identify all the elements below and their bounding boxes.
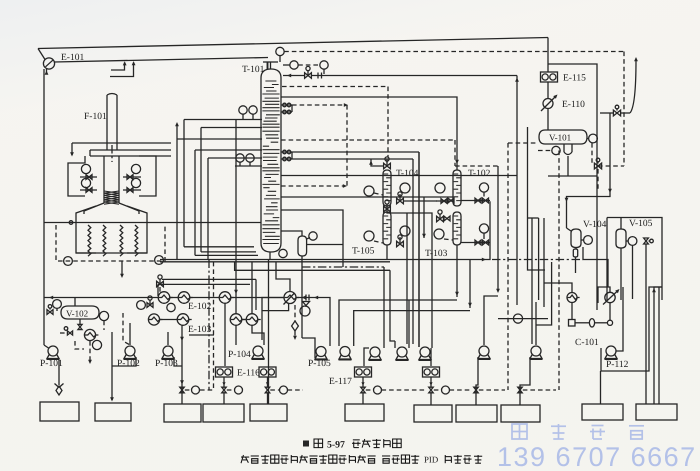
- wire pump484 suction from x=498 corner: [484, 296, 498, 345]
- wire dashed x=455 to x=498: [455, 165, 498, 167]
- wire between third and big exchanger: [231, 297, 284, 299]
- control valve on reflux line: [305, 73, 312, 78]
- wire feed arrow 2 into E-101: [110, 63, 134, 77]
- pump x=375: [370, 347, 380, 357]
- svg-text:E-103: E-103: [188, 325, 211, 335]
- wire P-105 discharge elbow: [302, 338, 315, 358]
- pump P-112: [606, 346, 616, 356]
- svg-text:5-97: 5-97: [327, 440, 345, 451]
- instrument dashed link: [298, 64, 320, 66]
- valve manifold tank8: [474, 387, 478, 393]
- svg-text:E-101: E-101: [61, 53, 84, 63]
- wire long header y=223 through furnace: [44, 222, 261, 224]
- wire into T-102 top from y=97 nozzle: [281, 97, 457, 170]
- tick symbol on reflux line: [317, 73, 319, 79]
- note prefix glyphs: [241, 456, 249, 458]
- instrument right of V-105: [628, 237, 637, 246]
- wire V-105 instrument drop: [632, 245, 634, 299]
- heat exchanger E-101 long body top line: [38, 38, 548, 49]
- burner circle B3: [131, 164, 140, 173]
- wire x=654 arrow up inside box: [654, 287, 662, 404]
- instrument right of V-101: [589, 134, 598, 143]
- svg-text:E-102: E-102: [188, 302, 211, 312]
- air cooler E-117: [355, 367, 372, 377]
- svg-text:E-110: E-110: [562, 100, 585, 110]
- wire dashed below valve: [597, 169, 599, 190]
- svg-text:E-117: E-117: [329, 377, 352, 387]
- wire long line y=297.5 with left arrow: [44, 297, 158, 299]
- wire y=270.3 header with corner: [235, 262, 390, 271]
- wire right vertical x=646 from V-105 valve: [645, 244, 647, 404]
- note tail glyphs: [444, 455, 446, 463]
- exchanger E-102a: [158, 292, 170, 304]
- exchanger E-102b: [178, 292, 190, 304]
- svg-text:T-101: T-101: [242, 65, 265, 75]
- wire feed arrow 1 into E-101: [111, 63, 125, 71]
- wire E-103 outlet down to tank3: [181, 325, 183, 404]
- svg-text:P-105: P-105: [308, 359, 331, 369]
- wire exchanger row y=297.5: [170, 297, 178, 299]
- wire dash-dot vertical x=209: [208, 260, 210, 391]
- wire long header y=261.8: [160, 261, 390, 263]
- vessel V-105: [616, 229, 626, 248]
- fuel instrument left: [64, 257, 73, 266]
- pump x=536: [531, 346, 541, 356]
- wire trunk vertical x=184: [183, 120, 185, 247]
- fuel instrument right: [155, 256, 164, 265]
- wire V-101 outlet down: [567, 156, 569, 176]
- wire trunk riser arrow x=177: [176, 124, 178, 139]
- heat exchanger E-101 body bottom line to T-101 neck: [54, 58, 268, 63]
- wire trunk horizontal y=119.5: [184, 119, 262, 121]
- wire T-104 letdown to T-102 y=201: [403, 200, 437, 202]
- wire dashed manifold chain 2: [382, 389, 427, 391]
- wire ladder horizontal y=251.9: [201, 251, 256, 253]
- wire elbow into V-104 top: [567, 228, 572, 231]
- svg-text:V-102: V-102: [66, 309, 88, 319]
- wire stub into reboiler pot: [281, 231, 302, 236]
- wire exchanger bottom link y=310.6 short: [262, 303, 289, 310]
- wire horizontal pair y=279.4: [162, 278, 256, 280]
- wire dashed T-101 y=105 with arrow: [292, 104, 345, 106]
- svg-text:T-103: T-103: [425, 249, 448, 259]
- wire pump425 discharge to cooler 4: [430, 348, 432, 366]
- wire instrument line y=319: [498, 318, 548, 320]
- wire vertical x=413: [412, 159, 414, 344]
- pump x=402: [397, 347, 407, 357]
- drum V-101: [539, 130, 587, 144]
- wire trunk horizontal y=139: [177, 138, 262, 140]
- furnace firebox flare: [84, 203, 104, 214]
- wire solid y=175.5 right: [281, 175, 517, 177]
- svg-text:PID: PID: [424, 455, 438, 465]
- instrument below exchanger: [92, 340, 101, 349]
- tank box 4: [203, 404, 244, 422]
- instrument pair left of T-101 upper: [239, 106, 247, 114]
- heat exchanger E-101 left end slant: [38, 49, 45, 60]
- svg-text:T-105: T-105: [352, 247, 375, 257]
- column T-101 shell: [261, 69, 281, 252]
- wire long header y=259.5: [160, 246, 490, 260]
- wire big exchanger top connection: [276, 262, 290, 292]
- pump P-101: [48, 346, 58, 356]
- wire P-103 discharge elbow: [174, 357, 182, 366]
- wire vertical x=252 feed: [251, 262, 253, 314]
- instrument above V-102: [53, 300, 62, 309]
- C-101 shaft and motor: [569, 320, 576, 327]
- wire P-101 suction: [44, 345, 49, 348]
- caption figure square bullet: [303, 441, 309, 447]
- valve manifold tank9: [518, 387, 522, 393]
- air cooler unit 4: [423, 367, 440, 377]
- drum V-102: [61, 306, 99, 319]
- instrument left of boot: [552, 146, 560, 154]
- wire vertical x=407: [406, 213, 408, 344]
- wire arrow into T-104 top: [371, 159, 384, 167]
- compressor C-101 stage 2 with arrow: [605, 292, 615, 302]
- wire drop to V-102: [74, 298, 76, 307]
- wire vertical x=256 drop: [255, 279, 257, 310]
- valve on tank3 feed: [180, 387, 184, 393]
- wire T-105 bottom outlet: [386, 245, 388, 260]
- wire header y=300 to pump suction x=339: [339, 300, 457, 346]
- T-101 side nozzle cluster lower: [281, 151, 292, 153]
- instrument dashed signal line across top: [284, 51, 624, 53]
- svg-text:E-116: E-116: [237, 369, 260, 379]
- instrument left of T-105 dashed: [364, 231, 374, 241]
- wire dashed vertical x=624: [623, 52, 625, 167]
- air cooler E-115: [541, 72, 558, 82]
- burner circle B1: [81, 164, 90, 173]
- burner circle B2: [81, 178, 90, 187]
- wire vertical x=419: [418, 152, 420, 347]
- wire stub under E-103 label: [189, 334, 214, 336]
- wire vertical x=424 arrow: [423, 197, 425, 238]
- instrument circle 3: [320, 61, 328, 69]
- furnace F-101 top header: [72, 142, 171, 144]
- wire x=551.6 vertical with elbow: [536, 262, 552, 325]
- furnace F-101 stack: [106, 95, 108, 150]
- vent triangle above instrument: [303, 302, 310, 306]
- column T-101 internal packing dashes: [262, 81, 279, 244]
- wire ladder horizontal y=246.8: [184, 246, 254, 248]
- pump x=425: [420, 347, 430, 357]
- instrument right of big exchanger: [300, 306, 310, 316]
- svg-text:P-104: P-104: [228, 350, 251, 360]
- wire dashed vertical x=559: [558, 151, 560, 391]
- wire dashed vertical x=347: [346, 105, 348, 186]
- valve top right gas line: [613, 110, 620, 116]
- pump P-105: [316, 347, 326, 357]
- svg-text:V-104: V-104: [583, 220, 607, 230]
- instrument left of T-103 dashed: [434, 229, 444, 239]
- manifold under E-117: [361, 387, 365, 393]
- furnace stack centerline: [111, 145, 113, 162]
- exchanger below V-102: [84, 329, 95, 340]
- wire vertical x=498 arrow down: [497, 166, 499, 291]
- wire trunk vertical x=208: [207, 158, 209, 260]
- wire pump484 discharge to tank8: [476, 357, 478, 405]
- furnace upper body walls: [68, 156, 85, 196]
- inline instrument circle x=518: [513, 314, 522, 323]
- wire dash-dot header y=267: [302, 266, 384, 268]
- control device E-110 circle with diagonal arrow: [543, 99, 553, 109]
- wire pump536 suction: [535, 302, 537, 345]
- wire vertical x=610 with corner to V-104: [567, 113, 611, 228]
- exchanger E-10x big: [284, 292, 296, 304]
- wire branch y=64 to x=597: [548, 64, 597, 113]
- wire dashed T-101 y=140 to x=455: [281, 139, 455, 141]
- svg-text:P-112: P-112: [606, 360, 629, 370]
- wire dashed manifold chain 1: [288, 389, 304, 391]
- tank box 5: [250, 404, 287, 421]
- wire E-101 outlet down to E-115: [547, 38, 549, 73]
- furnace damper neck hatched: [103, 156, 105, 203]
- column T-105 shell: [383, 212, 391, 245]
- column T-103 shell: [453, 212, 461, 245]
- wire horizontal y=176 right: [548, 175, 597, 177]
- wire trunk horizontal y=158: [208, 157, 262, 159]
- manifold under cooler 4: [429, 387, 433, 393]
- wire V-105 bottom outlet: [620, 248, 622, 300]
- V-105 enclosure: [607, 218, 662, 301]
- tank box 8: [456, 405, 497, 422]
- control valve pair above T-103: [437, 216, 444, 221]
- svg-text:C-101: C-101: [575, 338, 599, 348]
- note body glyphs 1: [261, 455, 269, 457]
- pump P-104: [253, 346, 263, 356]
- instrument right of T-105: [400, 226, 410, 236]
- wire dashed header continuation y=259.5: [492, 259, 583, 261]
- wire trunk horizontal y=127.5: [201, 127, 262, 129]
- wire trunk vertical x=201: [200, 128, 202, 252]
- wire furnace bottom arrow: [121, 261, 123, 276]
- wire dashed vertical x=592 short: [591, 143, 593, 163]
- wire vertical x=527.5 corner to 540: [528, 127, 546, 270]
- wire T-101 bottom outlet to header: [269, 252, 271, 260]
- instrument circle on T-101 overhead: [276, 47, 284, 55]
- wire dashed T-101 y=86.5 with corner down: [282, 86, 388, 88]
- wire P-103 suction: [167, 332, 169, 345]
- instrument right of T-104: [400, 183, 410, 193]
- wire solid y=159 right: [292, 158, 413, 160]
- valve pair left of T-102: [441, 199, 447, 204]
- caption title glyphs: [353, 439, 360, 441]
- exchanger near P-104 b: [246, 314, 258, 326]
- wire C-101 stage1 inlet: [544, 283, 572, 293]
- instrument right of T-102 with valve pair: [479, 183, 488, 192]
- vessel reboiler pot: [298, 236, 307, 256]
- wire vertical x=236 long with arrow: [235, 120, 237, 314]
- wire twin vertical x=390: [390, 270, 395, 341]
- wire P-101 discharge to tank1: [58, 360, 60, 385]
- svg-text:T-102: T-102: [468, 169, 491, 179]
- burner circle B4: [131, 178, 140, 187]
- air cooler E-116 unit B: [259, 367, 276, 377]
- control valve above T-104: [384, 163, 391, 168]
- firebox coils: [88, 225, 91, 256]
- wire right vertical x=659: [658, 287, 660, 404]
- instrument circle 2 right of neck: [290, 61, 298, 69]
- wire trunk vertical x=177: [176, 139, 178, 260]
- wire dashed branch y=186 with arrow: [281, 185, 344, 187]
- svg-text:F-101: F-101: [84, 112, 107, 122]
- wire solid y=152 right: [292, 151, 419, 153]
- wire pump402 risers: [394, 341, 396, 348]
- wire arrow into big exchanger with break ticks: [296, 298, 330, 347]
- wire P-102 suction risers: [123, 313, 130, 345]
- wire ladder horizontal y=255.4: [195, 254, 258, 256]
- fuel gas dashed loop: [56, 225, 165, 261]
- wire dashed arrow down: [89, 341, 91, 362]
- wire C-101 stage2 inlet: [598, 287, 610, 303]
- control valve near P-102: [147, 303, 153, 308]
- wire dashed stub y=143: [508, 142, 536, 144]
- manifold under E-116B valve+instrument: [265, 387, 269, 393]
- V-102 boot valve: [78, 324, 82, 329]
- manifold under E-116A valve+instrument: [222, 387, 226, 393]
- column T-104 shell: [383, 170, 391, 206]
- wire pot side line y=244.5: [307, 244, 343, 246]
- wire dashed vertical x=213.5: [213, 262, 215, 390]
- note body glyphs 2: [382, 455, 390, 457]
- valve on x=598 line: [594, 163, 601, 169]
- exchanger E-103a: [148, 314, 159, 325]
- wire V-105 feed: [620, 218, 622, 230]
- tank box 7: [414, 405, 452, 422]
- svg-text:V-101: V-101: [549, 133, 571, 143]
- exchanger near P-104 a: [230, 314, 242, 326]
- wire dashed around exchanger: [75, 341, 84, 349]
- wire E-115 to E-110: [547, 82, 549, 99]
- wire left main line E-101 down to P-101: [43, 69, 45, 345]
- instrument pair left of T-101 lower: [236, 154, 244, 162]
- wire E-110 to V-101: [547, 109, 549, 131]
- wire header y=310.6 to pump x=354.6: [354, 311, 470, 346]
- instrument left of T-104 dashed: [364, 186, 374, 196]
- caption glyph tu: [314, 439, 323, 448]
- tank box 9: [501, 405, 540, 422]
- instrument left of T-102: [435, 183, 445, 193]
- wire stub y=166 into column: [235, 165, 262, 167]
- wire P-112 discharge riser: [617, 287, 624, 351]
- wire vertical x=158 drop: [157, 284, 159, 296]
- instrument right of V-102: [99, 311, 108, 320]
- valve above E-102: [157, 281, 164, 286]
- wire vertical x=470 arrow: [469, 260, 471, 309]
- pump x=484: [479, 346, 489, 356]
- tank box 1: [40, 402, 79, 421]
- wire T-101 overhead neck: [270, 62, 272, 69]
- wire horizontal y=218: [528, 217, 539, 219]
- wire third exchanger drop to E-116a: [224, 303, 226, 366]
- wire solid y=197 right: [281, 196, 453, 198]
- tank box 6: [345, 404, 384, 421]
- instrument near P-102: [137, 301, 146, 310]
- valve right of V-105: [644, 238, 649, 244]
- wire T-101 bottoms main drop to tank5: [268, 260, 270, 405]
- wire x=544 vertical: [543, 218, 545, 307]
- instrument right of V-104: [584, 236, 593, 245]
- exchanger third on row: [219, 292, 231, 304]
- svg-text:V-105: V-105: [629, 219, 653, 229]
- wire T-103 bottoms down with arrow: [456, 245, 458, 297]
- exchanger E-103: [177, 314, 189, 326]
- heat exchanger E-101 head circle: [43, 58, 54, 69]
- wire dashed into flow diamond: [294, 305, 296, 321]
- big exchanger diagonal tail: [284, 294, 295, 305]
- wire gas line and riser arc with arrow: [600, 112, 613, 114]
- wire dashed jog to valve x=598: [598, 165, 624, 167]
- instrument at T-101 bottom: [279, 249, 287, 257]
- wire reflux into T-101 with arrow: [283, 75, 305, 77]
- wire T-104 bottom to x=432 and cooler: [387, 206, 432, 348]
- wire P-112 piping loop: [601, 287, 662, 371]
- tank box 10: [582, 404, 623, 420]
- firebox bottom closure: [76, 252, 147, 254]
- compressor C-101 stage 1: [567, 293, 577, 303]
- pump P-103: [163, 346, 173, 356]
- svg-text:E-115: E-115: [563, 74, 586, 84]
- valve left of V-102: [47, 310, 53, 315]
- wire solid y=210 corner down x=343: [281, 210, 343, 267]
- wire vertical x=597 long: [596, 113, 598, 310]
- wire verticals x=532 x=538.6 from y=218: [531, 218, 533, 344]
- tank box 2: [95, 403, 131, 421]
- wire vertical x=490 drain: [489, 201, 491, 246]
- svg-text:139 6707 6667: 139 6707 6667: [497, 442, 697, 471]
- svg-text:T-104: T-104: [396, 169, 419, 179]
- wire dashed corner x=455 down: [454, 140, 456, 166]
- wire reflux riser x=517 with up arrow: [516, 76, 518, 306]
- V-104 drain trap: [575, 248, 577, 250]
- vessel V-104: [571, 229, 581, 248]
- wire trunk horizontal y=150: [195, 149, 262, 151]
- wire pump425 suction riser: [418, 152, 420, 347]
- valve cluster left of exchanger: [67, 331, 72, 335]
- wire dashed manifold chain 3: [450, 389, 473, 391]
- wire dashed manifold from left: [200, 389, 213, 391]
- instrument right of T-103 with valve pair: [479, 224, 488, 233]
- instrument right of E-102: [167, 303, 175, 311]
- wire P-102 discharge to tank2: [112, 357, 136, 366]
- wire pump375 discharge to E-117: [364, 348, 369, 366]
- control valve above T-105: [384, 206, 391, 211]
- flow diamond below big exchanger: [292, 321, 299, 331]
- wire dashed vertical x=508: [507, 143, 509, 390]
- tank box 11: [636, 404, 677, 420]
- wire pump536 discharge to tank9: [520, 357, 530, 405]
- pump x=345: [340, 347, 350, 357]
- wire trunk vertical x=195: [194, 150, 196, 255]
- wire pot bottom outlet long drop: [301, 256, 303, 338]
- tank box 3: [164, 404, 201, 422]
- V-101 boot: [563, 144, 565, 152]
- column T-102 shell: [453, 170, 461, 206]
- wire reflux line from x=517 riser: [311, 75, 517, 77]
- instrument above pot: [309, 232, 317, 240]
- wire feed tank10 from P-112 box: [600, 371, 602, 404]
- pump P-102: [125, 346, 135, 356]
- wire twin vertical x=384: [383, 267, 385, 348]
- wire bracket segment y=259.5 right: [583, 247, 608, 287]
- wire horizontal pair y=284.4: [158, 283, 250, 285]
- flow indicator to tank1: [56, 386, 62, 395]
- T-101 side nozzle cluster upper: [281, 104, 292, 106]
- wire P-104 piping: [235, 325, 237, 345]
- watermark company glyphs: [512, 424, 527, 439]
- wire big exchanger left connection: [262, 298, 284, 341]
